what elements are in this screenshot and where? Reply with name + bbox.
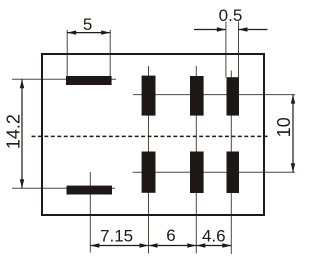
svg-text:4.6: 4.6 (202, 227, 226, 246)
svg-text:7.15: 7.15 (100, 227, 133, 246)
svg-text:5: 5 (83, 15, 92, 34)
svg-text:10: 10 (274, 117, 294, 137)
svg-text:14.2: 14.2 (4, 114, 24, 149)
svg-text:6: 6 (166, 226, 175, 245)
svg-text:0.5: 0.5 (219, 6, 243, 25)
